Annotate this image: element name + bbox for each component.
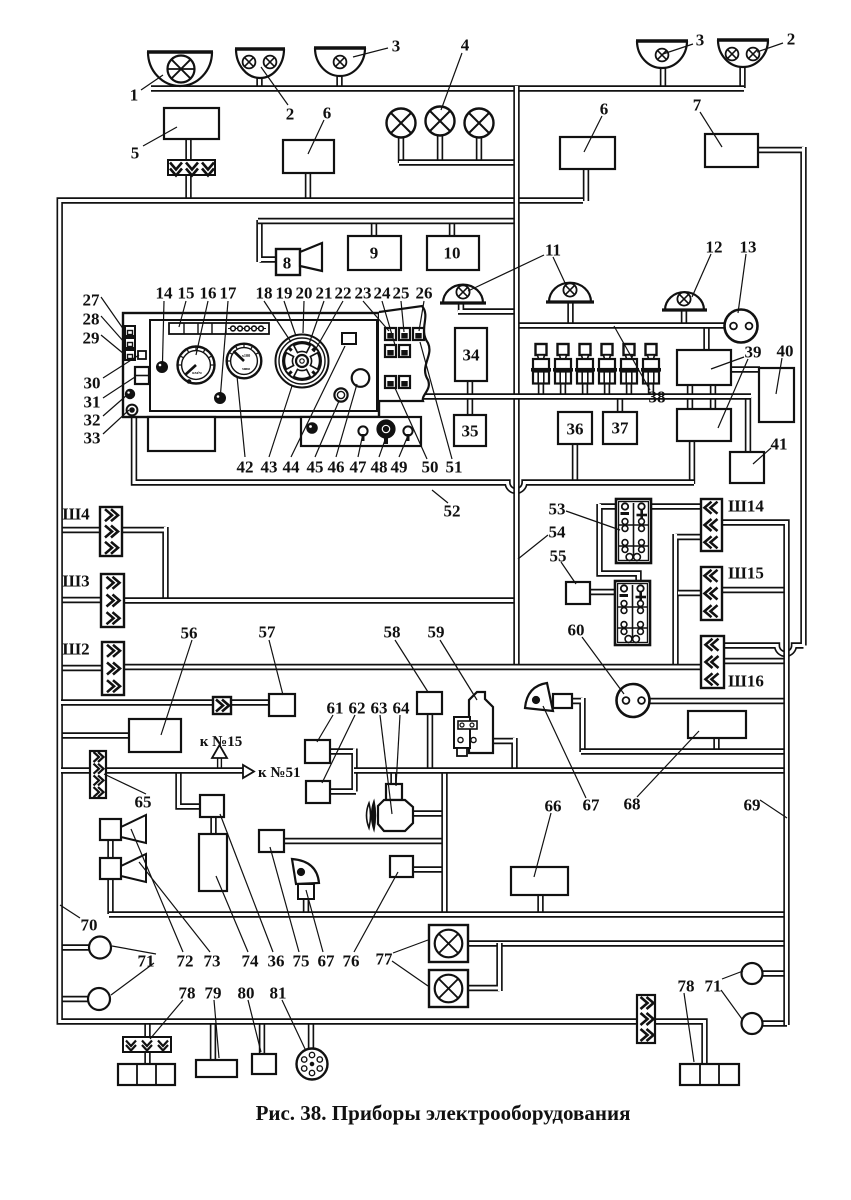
svg-text:63: 63 [371, 699, 388, 718]
wire: spotlight 67 lower stem [303, 898, 309, 914]
connector pads 23-26 50 51 [385, 328, 396, 340]
svg-text:67: 67 [583, 796, 601, 815]
horn speaker 72 [100, 819, 121, 840]
svg-text:13: 13 [740, 238, 757, 257]
svg-text:29: 29 [83, 329, 100, 348]
lamp box 77 upper [429, 925, 468, 962]
svg-text:9: 9 [370, 244, 379, 263]
svg-text:35: 35 [462, 422, 479, 441]
svg-text:60: 60 [568, 621, 585, 640]
relay box 5 [164, 108, 219, 139]
instrument panel outline [123, 313, 379, 417]
svg-text:57: 57 [259, 623, 277, 642]
wire: Sh16 pin2 [724, 658, 784, 664]
svg-text:55: 55 [550, 547, 567, 566]
wire: lamp 71 right stubs [762, 970, 787, 976]
spark plugs 38 [536, 344, 547, 355]
instrument panel inner plate [150, 320, 377, 411]
battery 53 lower [615, 581, 650, 645]
relay box 36 [558, 412, 592, 444]
lamp 3 left [315, 48, 365, 76]
distributor 81 [297, 1049, 328, 1080]
svg-text:58: 58 [384, 623, 401, 642]
wire: box 9 stem [371, 220, 377, 238]
wire: arrow k15 shaft [217, 756, 222, 772]
svg-text:34: 34 [463, 346, 481, 365]
svg-text:43: 43 [261, 458, 278, 477]
wire: box 41 stem [745, 397, 751, 454]
svg-text:40: 40 [777, 342, 794, 361]
wire: lamp 12 stem [681, 309, 687, 326]
wire: main vertical trunk [513, 86, 519, 665]
svg-text:71: 71 [705, 977, 722, 996]
wire: bus y751 [581, 748, 784, 754]
tachometer 42 [227, 344, 262, 379]
svg-text:71: 71 [138, 952, 155, 971]
svg-text:70: 70 [81, 916, 98, 935]
lamp 71 right lower [742, 1013, 763, 1034]
relay 36 lower [200, 795, 224, 817]
indicator window 44 [342, 333, 356, 344]
svg-text:Ш4: Ш4 [62, 505, 90, 524]
socket 45 [334, 388, 347, 401]
svg-text:к №15: к №15 [200, 734, 242, 750]
wire: lamp 3 left stem [336, 71, 342, 89]
relay box 6 left [283, 140, 334, 173]
svg-text:1: 1 [130, 86, 139, 105]
inline connector [213, 697, 231, 714]
svg-text:75: 75 [293, 952, 310, 971]
svg-text:3: 3 [392, 37, 401, 56]
svg-text:74: 74 [242, 952, 260, 971]
lamp cluster 4 [387, 109, 416, 138]
wire: connector Sh4 output jog [121, 527, 166, 600]
svg-text:67: 67 [318, 952, 336, 971]
wire: Sh15 pin1 [678, 590, 701, 596]
control box 10 [427, 236, 479, 270]
wire: lamp 71 left stubs [61, 944, 92, 950]
wire: box 79 stem [210, 1021, 216, 1061]
heater pump 59 [469, 692, 493, 753]
wire: lamp 11 left drop [458, 303, 517, 312]
control box 9 [348, 236, 401, 270]
dome lamp 11 left [443, 285, 483, 303]
ignition switch 48 [377, 420, 394, 437]
wire: bus y914 [109, 911, 784, 917]
wire: Sh3 long bus [122, 597, 514, 603]
wire: connector Sh3 input [61, 597, 103, 603]
svg-text:19: 19 [276, 284, 293, 303]
arrow to no51 [243, 765, 254, 778]
svg-text:38: 38 [649, 388, 666, 407]
switch 30 [138, 351, 146, 359]
wire: bus y703 to box 57 [61, 699, 272, 705]
switch strip 15 [169, 323, 269, 334]
svg-text:Ш2: Ш2 [62, 640, 89, 659]
wire: box 37 stem [617, 395, 623, 414]
svg-text:6: 6 [600, 100, 609, 119]
switch 47 [358, 426, 367, 435]
wire: box 55 to battery [588, 589, 626, 595]
svg-text:10: 10 [444, 244, 461, 263]
connector Sh15 [701, 567, 722, 620]
svg-text:22: 22 [335, 284, 352, 303]
wire: instrument bus with hop [134, 416, 694, 491]
wire: spark plug stems [538, 381, 544, 397]
svg-text:56: 56 [181, 624, 198, 643]
spotlight 67 upper [525, 683, 553, 711]
button 42 [307, 423, 317, 433]
wire: connector Sh2 input [61, 665, 104, 671]
svg-text:27: 27 [83, 291, 101, 310]
wire: box 76 output [412, 866, 445, 872]
svg-text:48: 48 [371, 458, 388, 477]
svg-text:51: 51 [446, 458, 463, 477]
relay box 6 right [560, 137, 615, 169]
svg-text:12: 12 [706, 238, 723, 257]
svg-text:23: 23 [355, 284, 372, 303]
wire: box 75 output [283, 838, 445, 844]
unit 74 [199, 834, 227, 891]
svg-text:7: 7 [693, 96, 702, 115]
svg-text:11: 11 [545, 241, 561, 260]
wire: boxes 61 62 loop [329, 749, 356, 792]
svg-text:65: 65 [135, 793, 152, 812]
unit 80 [252, 1054, 276, 1074]
connector Sh3 [101, 574, 124, 627]
svg-text:79: 79 [205, 984, 222, 1003]
fuse block 78 left [123, 1037, 171, 1052]
svg-text:Ш3: Ш3 [62, 572, 89, 591]
wire: lamp cluster 4 bus [399, 159, 517, 165]
svg-text:6: 6 [323, 104, 332, 123]
svg-text:2: 2 [286, 105, 295, 124]
relay box 56 [129, 719, 181, 752]
wire: relay 36 lower feed [179, 769, 202, 807]
svg-text:68: 68 [624, 795, 641, 814]
lamp box 77 lower [429, 970, 468, 1007]
lamp relay 68 [688, 711, 746, 738]
svg-text:54: 54 [549, 523, 567, 542]
regulator box 7 [705, 134, 758, 167]
wire: horn loop bus [258, 218, 517, 224]
wire: distributor 81 stem [308, 1021, 314, 1050]
connector 65 [90, 751, 106, 798]
sub panel right [301, 417, 421, 446]
relay box 58 [417, 692, 442, 714]
marker lamp 2 left [236, 49, 284, 78]
svg-text:50: 50 [422, 458, 439, 477]
svg-text:52: 52 [444, 502, 461, 521]
svg-text:14: 14 [156, 284, 174, 303]
svg-text:8: 8 [283, 254, 292, 273]
wire: horn 8 link [260, 220, 278, 262]
switch box 55 [566, 582, 590, 604]
wire: box 39 top stem [703, 324, 709, 352]
wire: box 36 lower stem [572, 442, 578, 484]
svg-text:37: 37 [612, 419, 630, 438]
relay box 37 [603, 412, 637, 444]
switch 49 [403, 426, 412, 435]
resistance 40 [759, 368, 794, 422]
svg-text:33: 33 [84, 429, 101, 448]
relay box 62 [306, 781, 330, 803]
wire: box 56 input [61, 732, 131, 738]
svg-text:к №51: к №51 [258, 765, 300, 781]
svg-text:78: 78 [179, 984, 196, 1003]
dome lamp 12 [665, 292, 704, 310]
svg-text:36: 36 [268, 952, 285, 971]
wire: battery 53 series link [600, 504, 639, 587]
wire: box 68 stem [713, 737, 719, 752]
svg-text:4: 4 [461, 36, 470, 55]
lamp 71 left lower [88, 988, 110, 1010]
junction box left [118, 1064, 175, 1085]
pilot lamp 14 [157, 362, 167, 372]
svg-text:24: 24 [374, 284, 392, 303]
headlight 1 [148, 52, 212, 86]
relay box 35 [454, 415, 486, 446]
regulator 39 upper [677, 350, 731, 385]
lamp 71 right upper [742, 963, 763, 984]
wire: battery 53 to Sh14 [643, 503, 702, 509]
wire: motor 63 output [413, 810, 445, 816]
wire: headlight 1 stem [175, 78, 181, 89]
horn 8 [276, 249, 300, 275]
svg-text:73: 73 [204, 952, 221, 971]
wire: box 34 to box 35 [467, 379, 473, 417]
svg-text:Рис. 38. Приборы электрообору: Рис. 38. Приборы электрооборудования [256, 1101, 631, 1125]
unit 79 [196, 1060, 237, 1077]
svg-text:39: 39 [745, 343, 762, 362]
wire: lamp 77 upper output [467, 940, 784, 946]
wire: box 39 to box 40 [730, 366, 760, 372]
socket 60 [617, 684, 650, 717]
svg-text:49: 49 [391, 458, 408, 477]
svg-text:21: 21 [316, 284, 333, 303]
pilot lamp 17 [215, 393, 225, 403]
wire: box 58 stem [427, 713, 433, 770]
wire: dimension wire 69 [721, 523, 787, 1026]
speedometer 16 [178, 347, 215, 384]
svg-text:64: 64 [393, 699, 411, 718]
svg-text:Ш16: Ш16 [728, 672, 764, 691]
svg-text:44: 44 [283, 458, 301, 477]
svg-text:78: 78 [678, 977, 695, 996]
dome lamp 11 right [549, 283, 591, 302]
wire: box 80 stem [259, 1021, 265, 1055]
svg-text:61: 61 [327, 699, 344, 718]
plafond 46 [352, 369, 370, 387]
svg-text:72: 72 [177, 952, 194, 971]
connector Sh14 [701, 499, 722, 551]
wire: spotlight 67 upper link [572, 698, 583, 752]
relay 75 [259, 830, 284, 852]
switches 27 28 29 [125, 326, 135, 336]
unit 66 [511, 867, 568, 895]
junction box right [680, 1064, 739, 1085]
svg-text:5: 5 [131, 144, 140, 163]
connector Sh16 [701, 636, 724, 688]
svg-text:41: 41 [771, 435, 788, 454]
wire: Sh14 pin2 drop [676, 534, 702, 665]
fuse block 78 right [637, 995, 655, 1043]
svg-text:59: 59 [428, 623, 445, 642]
wire: headlamp bus top [151, 85, 744, 91]
svg-text:мин: мин [242, 366, 250, 371]
svg-text:15: 15 [178, 284, 195, 303]
svg-text:26: 26 [416, 284, 433, 303]
wire: lamp 11-13 bus [516, 322, 726, 328]
svg-text:66: 66 [545, 797, 562, 816]
svg-text:80: 80 [238, 984, 255, 1003]
wire: lamp cluster 4 stems [398, 137, 404, 163]
svg-text:Ш14: Ш14 [728, 497, 764, 516]
wire: bus y771 left with arrow 51 [61, 767, 244, 773]
svg-text:81: 81 [270, 984, 287, 1003]
fuse block under 5 [168, 160, 215, 175]
button 32 [126, 390, 135, 399]
wire: box 39 bottom stem [689, 439, 695, 484]
wire: lamp 77 lower output [467, 943, 500, 991]
svg-text:53: 53 [549, 500, 566, 519]
relay 41 [730, 452, 764, 483]
svg-text:30: 30 [84, 374, 101, 393]
wire: box 66 stem [537, 894, 543, 915]
connector Sh4 [100, 507, 122, 556]
relay box 61 [305, 740, 330, 763]
svg-text:62: 62 [349, 699, 366, 718]
wire: resistor 78 left stem [144, 1021, 150, 1065]
wire: regulator 7 loop [723, 147, 804, 654]
svg-text:х100: х100 [242, 353, 250, 358]
svg-text:77: 77 [376, 950, 394, 969]
wire: speaker chain [107, 840, 113, 914]
switch box 57 [269, 694, 295, 716]
socket 13 [725, 310, 758, 343]
wire: frame left top bottom [60, 201, 705, 1066]
wire: lamp 11 right stem [567, 301, 573, 326]
wire: pump 59 link [476, 738, 515, 770]
svg-text:Ш15: Ш15 [728, 564, 764, 583]
regulator 39 lower [677, 409, 731, 441]
svg-text:42: 42 [237, 458, 254, 477]
wire: box 6 right stem [583, 168, 589, 201]
combination gauge 18-22 [276, 335, 329, 388]
svg-text:31: 31 [84, 393, 101, 412]
wire: box 39 top to bottom links [687, 384, 693, 410]
svg-text:45: 45 [307, 458, 324, 477]
lamp 71 left upper [89, 937, 111, 959]
wire: bus y771 right [354, 767, 784, 773]
relay 76 [390, 856, 413, 877]
svg-text:28: 28 [83, 310, 100, 329]
wire: spark plug bus [420, 393, 751, 399]
wire: junction riser x444 [441, 769, 447, 915]
switch block 31 [135, 367, 149, 384]
svg-text:20: 20 [296, 284, 313, 303]
button 33 [127, 405, 138, 416]
wire: lamp 3 right stem [660, 64, 666, 88]
svg-text:3: 3 [696, 31, 705, 50]
connector Sh2 [102, 642, 124, 695]
arrow to no15 [212, 745, 227, 758]
wire: storage bus y666 [122, 664, 702, 670]
spotlight 67 lower [292, 859, 319, 884]
svg-text:18: 18 [256, 284, 273, 303]
lamp 3 right [637, 41, 687, 68]
relay box 34 [455, 328, 487, 381]
wire: Sh15 output [722, 587, 784, 593]
fan motor 63 64 [386, 784, 402, 800]
svg-text:17: 17 [220, 284, 238, 303]
sub panel left [148, 417, 215, 451]
horn speaker 73 [100, 858, 121, 879]
wire: box 64 stem [390, 770, 396, 784]
wire: box 5 to resistor to frame [185, 138, 191, 199]
wire: box 10 stem [449, 220, 455, 238]
svg-text:69: 69 [744, 796, 761, 815]
wire: connector Sh4 input [61, 527, 102, 533]
svg-text:47: 47 [350, 458, 368, 477]
svg-text:2: 2 [787, 30, 796, 49]
wire: lamp 2 right stem [739, 63, 745, 88]
wire: box 6 left stem [305, 172, 311, 200]
svg-text:км/ч: км/ч [192, 370, 202, 375]
battery 53 upper [616, 499, 651, 563]
marker lamp 2 right [718, 40, 768, 67]
wire: relay 36 to box 74 [210, 816, 216, 835]
svg-text:46: 46 [328, 458, 345, 477]
wire: lamp 2 left stem [256, 73, 262, 89]
svg-text:76: 76 [343, 952, 360, 971]
svg-text:25: 25 [393, 284, 410, 303]
svg-text:32: 32 [84, 411, 101, 430]
wire: socket 60 to wire 69 [649, 698, 784, 704]
svg-text:36: 36 [567, 420, 584, 439]
svg-text:16: 16 [200, 284, 217, 303]
